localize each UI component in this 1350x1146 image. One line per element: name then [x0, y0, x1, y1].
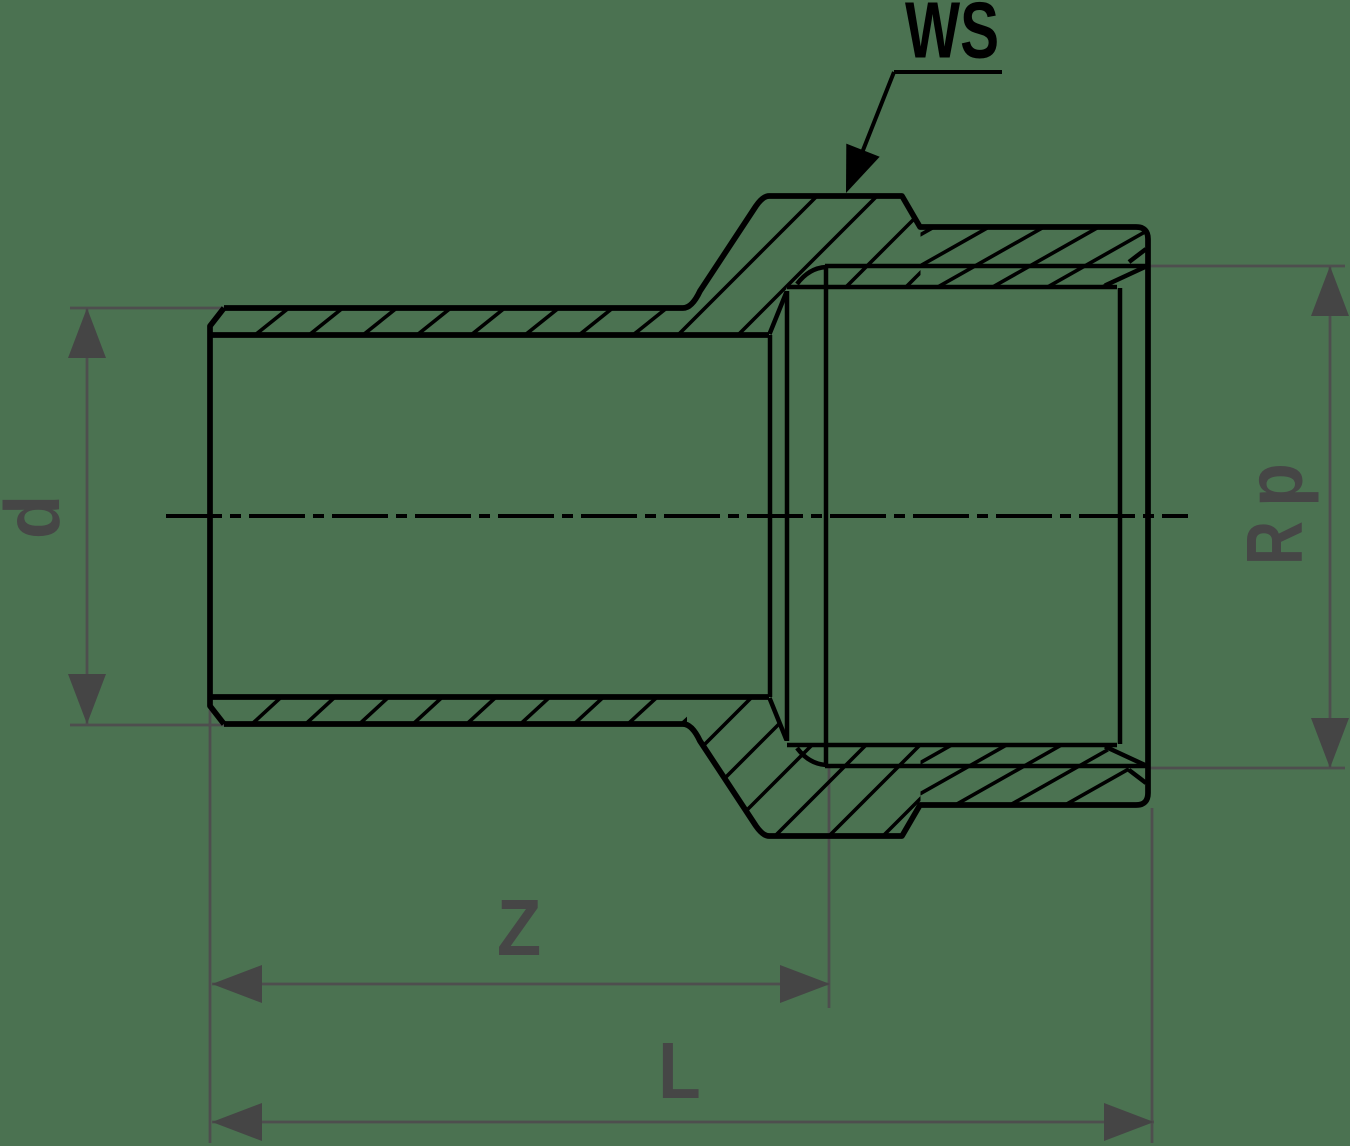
svg-text:WS: WS	[905, 0, 999, 74]
svg-text:R: R	[1231, 521, 1320, 565]
svg-text:d: d	[0, 495, 76, 539]
svg-text:Z: Z	[497, 884, 541, 973]
svg-text:p: p	[1231, 463, 1320, 507]
svg-text:L: L	[658, 1025, 700, 1115]
